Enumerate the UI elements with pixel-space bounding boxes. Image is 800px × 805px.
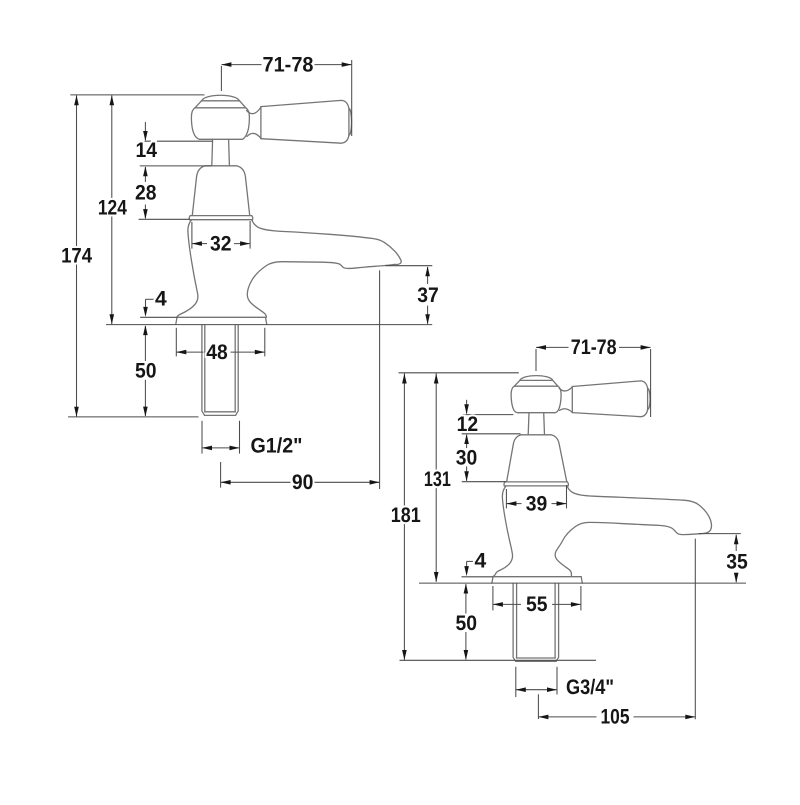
svg-text:48: 48 (206, 341, 228, 364)
svg-text:28: 28 (135, 182, 157, 205)
svg-text:174: 174 (61, 245, 92, 268)
svg-text:G3/4": G3/4" (566, 676, 614, 699)
svg-text:50: 50 (135, 360, 157, 383)
svg-text:4: 4 (474, 550, 486, 573)
svg-text:4: 4 (155, 287, 167, 310)
svg-text:71-78: 71-78 (571, 336, 617, 359)
svg-text:90: 90 (292, 471, 314, 494)
svg-text:50: 50 (456, 612, 478, 635)
svg-text:30: 30 (456, 447, 478, 470)
svg-text:105: 105 (601, 705, 630, 728)
svg-text:14: 14 (135, 139, 157, 162)
svg-text:55: 55 (526, 593, 548, 616)
svg-text:71-78: 71-78 (263, 53, 314, 76)
svg-text:35: 35 (726, 550, 748, 573)
svg-text:37: 37 (417, 284, 439, 307)
svg-text:39: 39 (526, 492, 548, 515)
svg-text:181: 181 (391, 504, 421, 527)
svg-text:131: 131 (424, 468, 451, 491)
svg-text:32: 32 (210, 232, 232, 255)
svg-text:12: 12 (457, 413, 479, 436)
svg-text:G1/2": G1/2" (251, 435, 303, 458)
svg-text:124: 124 (98, 197, 127, 220)
